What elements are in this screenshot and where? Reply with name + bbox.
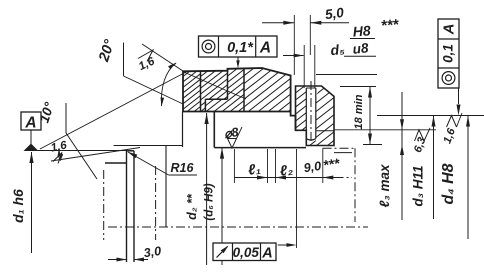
svg-text:9,0: 9,0 bbox=[303, 159, 322, 175]
svg-text:d₃ H11: d₃ H11 bbox=[411, 165, 426, 206]
svg-text:0,1*: 0,1* bbox=[227, 40, 254, 56]
svg-text:***: *** bbox=[322, 155, 341, 173]
svg-text:A: A bbox=[441, 24, 458, 36]
svg-text:ℓ₃ max: ℓ₃ max bbox=[377, 164, 392, 207]
svg-text:A: A bbox=[261, 246, 272, 262]
svg-text:H8: H8 bbox=[352, 22, 371, 39]
svg-text:u8: u8 bbox=[352, 40, 370, 57]
svg-text:R16: R16 bbox=[171, 161, 195, 175]
svg-text:18 min: 18 min bbox=[353, 94, 365, 129]
svg-text:d₄ H8: d₄ H8 bbox=[440, 163, 457, 204]
svg-text:1,6: 1,6 bbox=[50, 139, 69, 154]
svg-text:0,05: 0,05 bbox=[233, 245, 260, 260]
svg-text:ℓ₁: ℓ₁ bbox=[247, 161, 262, 179]
svg-text:ℓ₂: ℓ₂ bbox=[279, 162, 295, 180]
svg-text:6,3: 6,3 bbox=[412, 136, 429, 154]
svg-text:A: A bbox=[259, 40, 271, 57]
svg-text:(d₆ H9): (d₆ H9) bbox=[204, 183, 216, 220]
svg-text:0,1: 0,1 bbox=[441, 44, 456, 63]
svg-text:d₁ h6: d₁ h6 bbox=[10, 189, 26, 223]
svg-text:3,0: 3,0 bbox=[143, 244, 162, 260]
svg-text:20°: 20° bbox=[96, 38, 118, 65]
svg-text:d₅: d₅ bbox=[330, 41, 346, 58]
svg-text:A: A bbox=[24, 115, 36, 132]
svg-text:5,0: 5,0 bbox=[324, 5, 345, 23]
svg-text:1,6: 1,6 bbox=[441, 126, 458, 145]
svg-text:d₂ **: d₂ ** bbox=[185, 193, 199, 220]
svg-text:***: *** bbox=[380, 16, 400, 34]
